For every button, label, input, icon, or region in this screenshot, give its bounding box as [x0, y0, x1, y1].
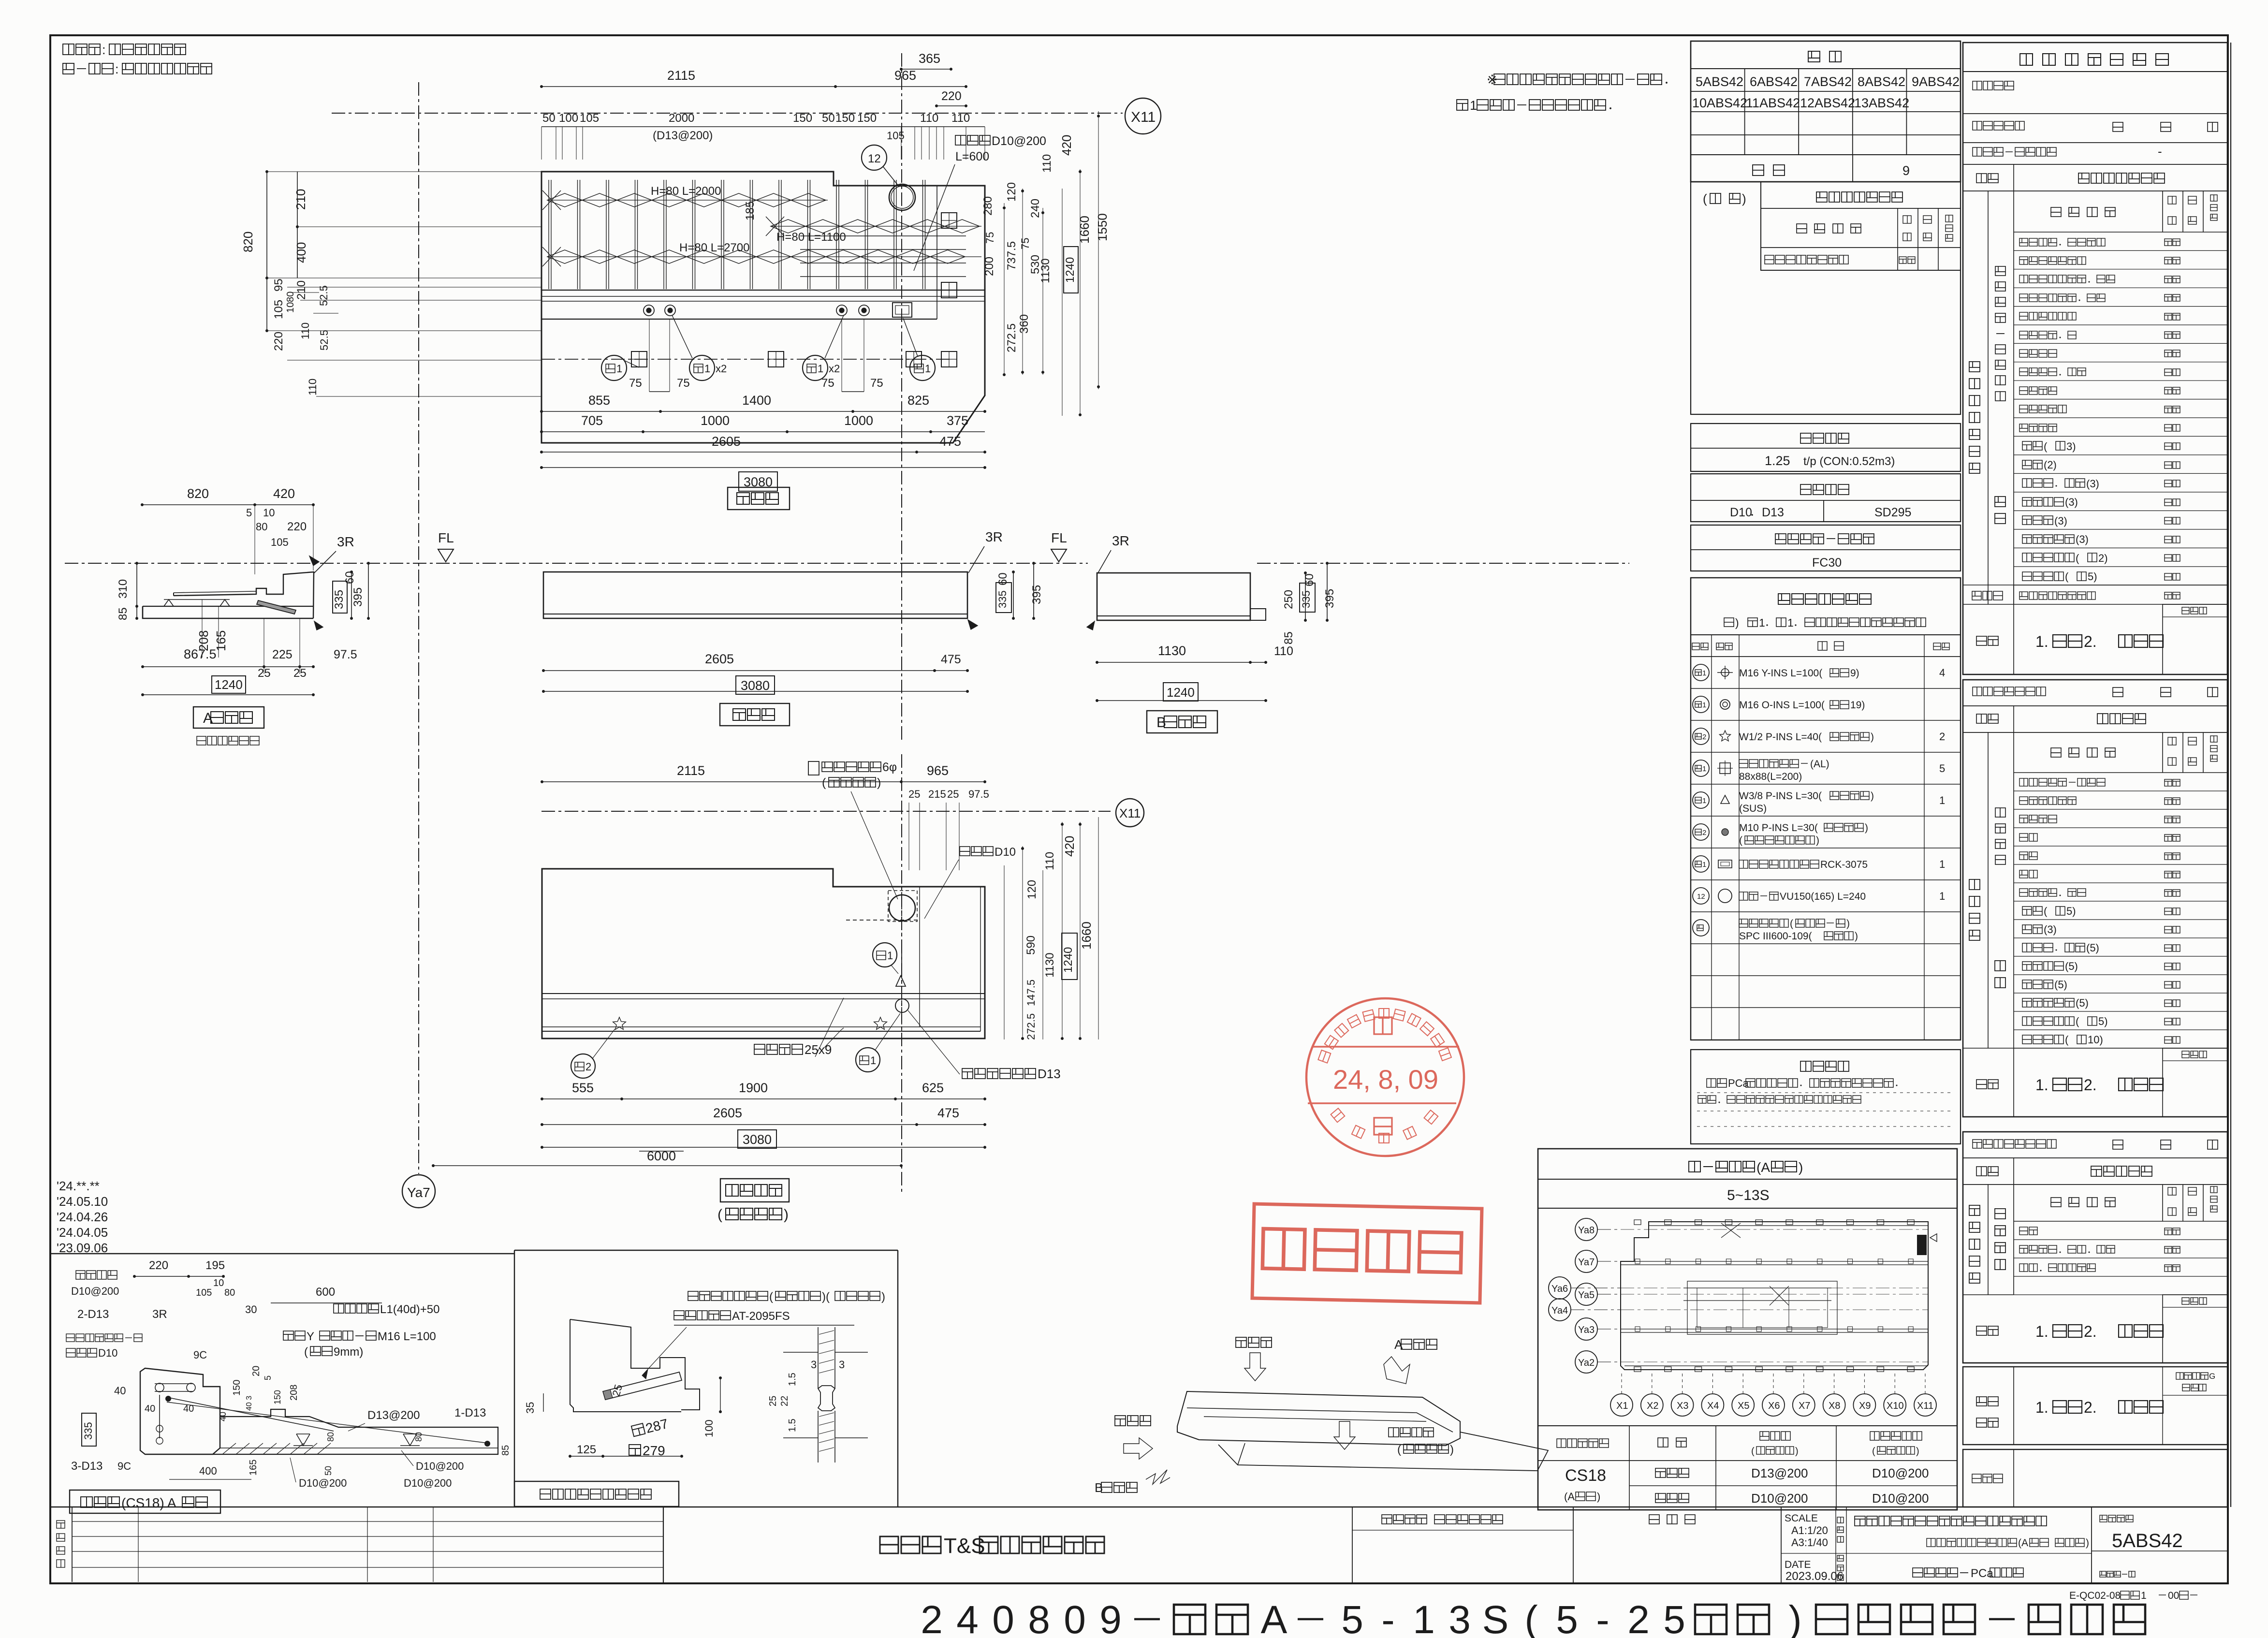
svg-text:2605: 2605 [713, 1106, 742, 1120]
svg-text:110: 110 [299, 322, 311, 339]
svg-text:85: 85 [117, 607, 130, 620]
svg-text:Ya5: Ya5 [1578, 1290, 1595, 1301]
svg-text:600: 600 [316, 1286, 335, 1299]
svg-text:965: 965 [927, 763, 949, 778]
svg-text:X7: X7 [1799, 1401, 1810, 1411]
svg-text:): ) [1816, 835, 1819, 846]
svg-text:215: 215 [928, 788, 946, 800]
svg-text:2115: 2115 [677, 763, 705, 778]
X11 axis vertical through plan [901, 53, 902, 740]
bed labels [754, 1044, 765, 1054]
isometric sketch [1177, 1391, 1460, 1446]
svg-text:x2: x2 [716, 363, 727, 375]
slab to right [213, 1409, 498, 1454]
svg-text:(2): (2) [2044, 459, 2057, 471]
keyplan unit ticks [1634, 1220, 1641, 1225]
svg-text:X8: X8 [1829, 1401, 1840, 1411]
svg-text:150: 150 [835, 112, 855, 125]
svg-text:1: 1 [704, 363, 710, 375]
svg-text:L1(40d)+50: L1(40d)+50 [380, 1303, 439, 1316]
svg-text:SPC III600-109(: SPC III600-109( [1739, 931, 1812, 942]
svg-text:): ) [1865, 822, 1868, 834]
svg-text:(: ( [2044, 440, 2048, 453]
svg-text:1.5: 1.5 [787, 1373, 798, 1386]
svg-text:150: 150 [232, 1380, 242, 1396]
svg-text:1.: 1. [2035, 1076, 2049, 1094]
svg-text:820: 820 [241, 232, 255, 252]
svg-text:FL: FL [1051, 530, 1067, 545]
svg-text:9: 9 [1902, 163, 1910, 178]
svg-text:H=80 L=2700: H=80 L=2700 [679, 241, 749, 254]
svg-text:L=600: L=600 [955, 150, 989, 163]
svg-text:)(: )( [822, 1290, 830, 1303]
svg-text:D10@200: D10@200 [416, 1460, 464, 1472]
concrete table [1691, 525, 1961, 571]
svg-text:(3): (3) [2054, 515, 2067, 527]
svg-text:(: ( [2044, 905, 2048, 917]
svg-text:Ya8: Ya8 [1578, 1225, 1595, 1236]
label gasket [514, 1481, 679, 1506]
svg-text:-: - [1596, 1598, 1609, 1638]
svg-text:SCALE: SCALE [1785, 1513, 1818, 1524]
bed top dims [542, 781, 985, 782]
A side left dims [136, 563, 137, 618]
kanri bunsho stamp [1252, 1204, 1482, 1303]
drain RCK [893, 303, 912, 317]
svg-text:52.5: 52.5 [318, 285, 330, 306]
svg-text:475: 475 [941, 653, 961, 666]
svg-text:(: ( [822, 776, 826, 790]
left dim stack [267, 171, 541, 172]
sougou hantei box [1963, 1367, 2227, 1445]
svg-text:2.: 2. [2084, 1399, 2097, 1416]
svg-text:1: 1 [1759, 616, 1765, 629]
hantei section3 [1963, 1294, 2014, 1295]
svg-text:): ) [784, 1207, 789, 1223]
svg-text:25: 25 [768, 1396, 778, 1406]
svg-text:DATE: DATE [1785, 1559, 1811, 1570]
finish notes [63, 44, 74, 55]
weight table [1691, 424, 1961, 471]
svg-text:1660: 1660 [1079, 921, 1094, 950]
axis X11 horizontal leader top [332, 113, 1123, 114]
bottom dims A [143, 666, 313, 667]
svg-text:195: 195 [205, 1259, 225, 1272]
svg-text:5~13S: 5~13S [1727, 1187, 1770, 1203]
keyplan X crosses [1721, 1223, 1741, 1238]
bottom dims [649, 319, 650, 392]
svg-text:1400: 1400 [742, 393, 771, 408]
svg-text:225: 225 [272, 648, 293, 661]
svg-text:5: 5 [263, 1375, 273, 1380]
svg-text:(3): (3) [2086, 478, 2099, 490]
svg-text:X3: X3 [1677, 1401, 1688, 1411]
svg-text:1: 1 [616, 363, 622, 375]
svg-text:D10@200: D10@200 [1872, 1466, 1929, 1480]
vertical rebars D13@200 [548, 180, 549, 289]
svg-text:1: 1 [1702, 861, 1706, 869]
svg-text:): ) [1742, 191, 1746, 206]
svg-text:88x88(L=200): 88x88(L=200) [1739, 771, 1802, 782]
svg-text:120: 120 [1005, 182, 1018, 202]
supports [164, 600, 174, 606]
svg-text:420: 420 [273, 486, 295, 501]
svg-text:M16 Y-INS L=100(: M16 Y-INS L=100( [1739, 668, 1822, 679]
svg-text:395: 395 [1323, 589, 1336, 608]
svg-text:-: - [2158, 144, 2162, 159]
svg-text:G: G [2209, 1372, 2215, 1381]
svg-text:(5): (5) [2065, 960, 2078, 972]
svg-text:(A: (A [1756, 1160, 1770, 1175]
svg-text:10ABS42: 10ABS42 [1692, 96, 1747, 110]
svg-text:75: 75 [1019, 238, 1031, 249]
svg-text:40 3: 40 3 [245, 1396, 253, 1411]
svg-text:3: 3 [1449, 1598, 1471, 1638]
svg-text:2: 2 [1702, 733, 1706, 741]
A side right dims [351, 572, 352, 618]
svg-text:1: 1 [1787, 616, 1794, 629]
svg-text:X11: X11 [1131, 109, 1156, 125]
svg-text:2605: 2605 [712, 434, 741, 449]
gasket right detail: vertical joint [783, 1352, 818, 1353]
svg-text:1: 1 [1413, 1598, 1435, 1638]
svg-text:E-QC02-08: E-QC02-08 [2069, 1590, 2121, 1601]
svg-text:40: 40 [218, 1412, 228, 1421]
svg-text:9: 9 [1099, 1598, 1122, 1638]
svg-text:100: 100 [559, 112, 578, 125]
insert circles 吊1 [644, 305, 654, 316]
svg-text:(3): (3) [2044, 923, 2057, 936]
svg-text:'24.05.10: '24.05.10 [57, 1194, 108, 1209]
svg-text:5ABS42: 5ABS42 [2112, 1530, 2183, 1551]
bed triangle 本1 [896, 976, 906, 986]
svg-text:280: 280 [981, 196, 995, 216]
axis X11 bubble mid [541, 811, 1111, 812]
svg-text:5ABS42: 5ABS42 [1696, 74, 1743, 89]
svg-text:13ABS42: 13ABS42 [1854, 96, 1909, 110]
gasket profile shape [818, 1386, 835, 1411]
svg-text:7ABS42: 7ABS42 [1804, 74, 1852, 89]
svg-text:0: 0 [992, 1598, 1014, 1638]
svg-text:420: 420 [1059, 135, 1074, 156]
svg-text:D10: D10 [995, 846, 1016, 859]
svg-text:(5): (5) [2054, 979, 2067, 991]
svg-text:1: 1 [818, 363, 823, 375]
svg-text:3: 3 [811, 1359, 817, 1371]
label 外観図 [720, 703, 790, 726]
svg-text:Y: Y [307, 1330, 314, 1343]
keyplan highlight marker [1917, 1235, 1926, 1255]
svg-text:395: 395 [351, 587, 365, 607]
svg-text:10: 10 [213, 1278, 224, 1288]
designer cell [1382, 1515, 1392, 1524]
svg-text:1240: 1240 [1064, 257, 1077, 283]
svg-text:X1: X1 [1616, 1401, 1628, 1411]
section3 [1963, 1132, 2227, 1363]
svg-text:1130: 1130 [1039, 258, 1052, 283]
svg-text:A1:1/20: A1:1/20 [1791, 1524, 1828, 1536]
keyplan building outline [1621, 1222, 1928, 1370]
svg-text:): ) [881, 1290, 885, 1303]
svg-text:85: 85 [1282, 631, 1295, 644]
svg-text:400: 400 [199, 1465, 217, 1477]
svg-text:): ) [1855, 931, 1858, 942]
svg-text:(: ( [717, 1207, 722, 1223]
label 上端図 [728, 487, 790, 510]
svg-text:D10: D10 [98, 1347, 117, 1359]
rebar chain H=80 L=2000 [542, 190, 561, 210]
svg-text:3R: 3R [337, 534, 354, 549]
rebar chain H=80 L=1100 [766, 217, 784, 236]
svg-text:220: 220 [272, 332, 285, 351]
svg-text:): ) [2086, 1537, 2089, 1549]
svg-text:4: 4 [1939, 667, 1945, 679]
top view inner lines [541, 290, 985, 291]
svg-text::: : [102, 43, 106, 57]
svg-text:10: 10 [285, 302, 296, 313]
svg-text:(: ( [1703, 191, 1707, 206]
svg-text:335: 335 [1300, 590, 1312, 608]
scale/date cells [1781, 1507, 1782, 1583]
svg-text:8ABS42: 8ABS42 [1858, 74, 1905, 89]
svg-text:FL: FL [438, 530, 454, 545]
svg-text:210: 210 [295, 280, 308, 300]
bed dashed lines [846, 920, 920, 921]
svg-text:35: 35 [524, 1402, 536, 1414]
svg-text:1240: 1240 [1062, 947, 1075, 973]
svg-text:335: 335 [82, 1422, 94, 1440]
svg-text:1: 1 [1702, 669, 1706, 677]
svg-text:(SUS): (SUS) [1739, 803, 1767, 814]
svg-text:420: 420 [1062, 836, 1077, 857]
svg-text:D10: D10 [1730, 506, 1752, 519]
drain label leader [955, 135, 966, 145]
svg-text:1900: 1900 [739, 1081, 768, 1095]
svg-text:1: 1 [1939, 794, 1945, 806]
svg-text:705: 705 [581, 413, 603, 428]
hoshuuran box [1963, 1449, 2227, 1507]
svg-text:(: ( [2076, 1015, 2079, 1027]
svg-text:80: 80 [414, 1432, 424, 1442]
svg-text:5): 5) [2088, 570, 2097, 583]
svg-text:D10@200: D10@200 [1751, 1491, 1808, 1506]
svg-text:X2: X2 [1647, 1401, 1658, 1411]
A side dims top [142, 504, 313, 505]
svg-text:M16 L=100: M16 L=100 [378, 1330, 436, 1343]
axis Ya7 vertical [418, 82, 419, 1174]
svg-text:95: 95 [272, 278, 285, 292]
svg-text:D13: D13 [1762, 506, 1784, 519]
haikin section drawing [140, 1368, 220, 1454]
svg-text:5): 5) [2066, 905, 2076, 917]
bed sleeve circle [889, 895, 915, 921]
svg-text:9): 9) [1850, 668, 1859, 679]
svg-text:80: 80 [326, 1432, 336, 1442]
svg-text:185: 185 [744, 201, 757, 220]
svg-text:D10@200: D10@200 [299, 1477, 347, 1489]
svg-text:19): 19) [1850, 700, 1865, 711]
svg-text:1.: 1. [2035, 633, 2049, 650]
svg-text:Ya6: Ya6 [1551, 1284, 1568, 1294]
svg-text:(: ( [1790, 918, 1793, 929]
svg-text:105: 105 [580, 112, 599, 125]
svg-text:W3/8 P-INS L=30(: W3/8 P-INS L=30( [1739, 790, 1822, 802]
svg-text:1240: 1240 [1167, 685, 1195, 700]
svg-text:VU150(165) L=240: VU150(165) L=240 [1780, 891, 1866, 902]
hantei section2 [1963, 1048, 2227, 1049]
svg-text:220: 220 [287, 520, 307, 533]
svg-text:FC30: FC30 [1812, 556, 1842, 570]
title block strip [51, 1506, 2227, 1507]
svg-text:W1/2 P-INS L=40(: W1/2 P-INS L=40( [1739, 731, 1822, 743]
svg-text:375: 375 [947, 413, 968, 428]
svg-text:200: 200 [983, 257, 996, 276]
inner rebars [155, 1383, 193, 1384]
svg-text:6φ: 6φ [882, 760, 897, 774]
svg-text:150: 150 [857, 112, 877, 125]
B dims right [1305, 573, 1306, 620]
svg-text:5: 5 [1939, 762, 1945, 775]
svg-text:10: 10 [263, 507, 275, 519]
svg-text:2.: 2. [2084, 1323, 2097, 1340]
axis X11 bubble top [1125, 98, 1161, 134]
inner inspection mini table [1761, 182, 1961, 270]
svg-text:50: 50 [323, 1466, 333, 1476]
elevation right dims [1013, 572, 1014, 618]
bed bottom dims [542, 1098, 985, 1099]
svg-text:(CS18) A: (CS18) A [121, 1495, 176, 1510]
dasetsu-go row [1963, 585, 2227, 585]
svg-text:S: S [1482, 1598, 1509, 1638]
svg-text:360: 360 [1018, 314, 1031, 334]
svg-text:(AL): (AL) [1810, 759, 1829, 770]
svg-text:00: 00 [2168, 1590, 2179, 1601]
label haikin [70, 1490, 220, 1513]
horizontal bars right [800, 235, 966, 236]
B dims bottom [1097, 662, 1266, 663]
keyplan box [1538, 1149, 1957, 1510]
svg-text:40: 40 [145, 1404, 155, 1414]
svg-text:(5): (5) [2076, 997, 2089, 1009]
svg-text:625: 625 [922, 1081, 944, 1095]
svg-text:24, 8, 09: 24, 8, 09 [1333, 1064, 1438, 1095]
svg-text:75: 75 [984, 232, 996, 244]
svg-text:208: 208 [289, 1385, 299, 1401]
svg-text:250: 250 [1282, 590, 1295, 609]
svg-text:110: 110 [920, 112, 938, 125]
svg-text:(: ( [769, 1290, 773, 1303]
svg-text:): ) [1799, 1160, 1803, 1175]
svg-text:110: 110 [1040, 154, 1054, 173]
svg-text:240: 240 [1029, 199, 1042, 218]
svg-text:110: 110 [1043, 852, 1056, 870]
svg-text:'24.**.**: '24.**.** [57, 1179, 100, 1193]
keyplan column ticks mid rows [1635, 1259, 1640, 1264]
svg-text:105: 105 [271, 536, 289, 548]
label A側面図 [193, 707, 264, 728]
leader circles below [601, 355, 627, 380]
svg-text:12: 12 [868, 152, 881, 165]
svg-text:): ) [877, 776, 881, 790]
208 165 [196, 630, 211, 651]
quality table [1963, 43, 2227, 674]
svg-text:'23.09.06: '23.09.06 [57, 1241, 108, 1255]
section2 [1963, 680, 2227, 1117]
svg-text:1000: 1000 [844, 413, 873, 428]
svg-text:3): 3) [2066, 440, 2076, 453]
svg-text:150: 150 [793, 112, 812, 125]
svg-text:395: 395 [1030, 585, 1043, 604]
svg-text:): ) [1788, 1598, 1801, 1638]
svg-text:M16 O-INS L=100(: M16 O-INS L=100( [1739, 700, 1825, 711]
keyplan inner walls [1621, 1261, 1928, 1262]
bed inner lines [542, 993, 985, 994]
svg-text:50: 50 [542, 112, 556, 125]
svg-text:105: 105 [196, 1287, 212, 1298]
svg-text:5: 5 [1663, 1598, 1685, 1638]
dim 2115/965 top [541, 86, 966, 87]
haikin box [51, 1253, 514, 1254]
svg-text:2115: 2115 [667, 68, 695, 83]
svg-text:40: 40 [183, 1404, 194, 1414]
svg-text:2023.09.06: 2023.09.06 [1785, 1570, 1844, 1583]
svg-text::: : [115, 62, 119, 76]
elevation outline [543, 572, 967, 618]
svg-text:X9: X9 [1859, 1401, 1871, 1411]
svg-text:220: 220 [941, 89, 962, 103]
svg-text:2.: 2. [2084, 633, 2097, 650]
svg-text:2): 2) [2098, 552, 2108, 564]
water drip joint dashdot row [541, 359, 953, 360]
svg-text:125: 125 [577, 1443, 596, 1456]
rebar spec table [1691, 474, 1961, 522]
svg-text:4: 4 [956, 1598, 979, 1638]
svg-text:1: 1 [2141, 1590, 2147, 1601]
svg-text:75: 75 [629, 377, 642, 390]
A side view outline [143, 606, 313, 607]
svg-text:310: 310 [117, 579, 130, 599]
svg-text:100: 100 [703, 1419, 715, 1437]
stamp arc text [1318, 1050, 1331, 1063]
svg-text:1130: 1130 [1043, 952, 1056, 978]
svg-text:'24.04.26: '24.04.26 [57, 1210, 108, 1224]
svg-text:1: 1 [1702, 701, 1706, 709]
svg-text:60: 60 [996, 572, 1010, 585]
gasket strip [603, 1372, 682, 1400]
svg-text:RCK-3075: RCK-3075 [1820, 859, 1868, 870]
svg-text:X6: X6 [1768, 1401, 1780, 1411]
svg-text:97.5: 97.5 [968, 788, 989, 800]
svg-text:590: 590 [1024, 936, 1038, 955]
svg-text:150: 150 [273, 1390, 282, 1404]
svg-text:1: 1 [925, 363, 931, 375]
svg-text:Ya3: Ya3 [1578, 1325, 1595, 1335]
svg-text:60: 60 [343, 571, 356, 584]
svg-text:25: 25 [908, 788, 920, 800]
bed stars [613, 1017, 626, 1029]
support triangles [296, 1434, 310, 1446]
svg-text:80: 80 [285, 292, 296, 302]
svg-text:9ABS42: 9ABS42 [1912, 74, 1960, 89]
gasket box [514, 1250, 898, 1251]
svg-text:1660: 1660 [1077, 216, 1092, 244]
bed drain circle [895, 999, 909, 1012]
svg-text:8: 8 [1028, 1598, 1050, 1638]
svg-text:147.5: 147.5 [1025, 980, 1037, 1006]
svg-text:(: ( [2065, 570, 2069, 583]
svg-text:6ABS42: 6ABS42 [1750, 74, 1798, 89]
site cell [1649, 1515, 1659, 1524]
